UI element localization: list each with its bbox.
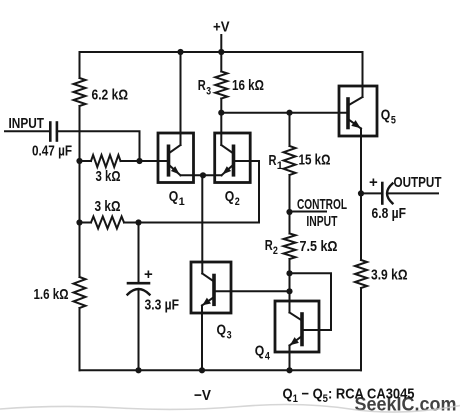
wire Q2 collector to R3 node (220, 113, 222, 145)
capacitor 6.8 µF (381, 183, 384, 204)
svg-text:7.5 kΩ: 7.5 kΩ (300, 238, 338, 255)
svg-text:16 kΩ: 16 kΩ (232, 77, 264, 94)
node +V / R3 top (218, 49, 224, 55)
svg-text:3: 3 (206, 85, 211, 97)
svg-text:−V: −V (194, 387, 211, 404)
svg-text:3.9 kΩ: 3.9 kΩ (371, 267, 408, 284)
transistor Q1 (158, 133, 194, 183)
transistor Q3 (191, 262, 231, 313)
wire R3 node to Q5 base (221, 112, 348, 114)
wire common emitters down to Q3 collector (201, 175, 203, 273)
wire output lead (388, 192, 438, 194)
svg-text:Q: Q (255, 343, 265, 360)
node Q3 base / Q4 collector (286, 288, 292, 294)
wire top +V rail (80, 51, 363, 53)
node control input (286, 209, 292, 215)
node input / 3k upper / Q1 base (136, 158, 142, 164)
wire Q1 emitter to common node (181, 174, 204, 176)
resistor R2 7.5 kΩ (284, 234, 296, 260)
node left rail / 3k upper (76, 158, 82, 164)
svg-text:3: 3 (227, 330, 232, 342)
resistor R3 16 kΩ (215, 72, 227, 99)
svg-text:Q: Q (169, 188, 179, 205)
wire left rail (6.2k branch) (79, 52, 81, 78)
wire Q1 collector to top rail (180, 52, 182, 145)
transistor Q2 (215, 133, 251, 183)
svg-text:6.8 µF: 6.8 µF (372, 205, 407, 222)
node 3.3µF / 3k lower (135, 219, 141, 225)
svg-text:Q: Q (225, 188, 235, 205)
node Q1 collector / top rail (177, 49, 183, 55)
capacitor 3.3 µF (138, 223, 140, 284)
svg-text:15 kΩ: 15 kΩ (299, 152, 331, 169)
svg-text:2: 2 (273, 245, 278, 257)
resistor 3 kΩ (upper) (91, 155, 121, 167)
resistor 1.6 kΩ (74, 277, 86, 308)
wire control input stub (290, 211, 327, 213)
node R3 bottom / Q2 collector (218, 110, 224, 116)
svg-text:R: R (265, 237, 273, 254)
svg-text:1.6 kΩ: 1.6 kΩ (34, 286, 69, 303)
svg-text:+: + (144, 266, 153, 283)
wire Q3 emitter to -V rail (201, 306, 203, 371)
power +V stub (220, 35, 222, 52)
transistor Q4 (275, 301, 319, 352)
svg-text:Q: Q (381, 107, 391, 124)
svg-text:OUTPUT: OUTPUT (394, 174, 442, 191)
svg-text:CONTROL: CONTROL (297, 196, 347, 213)
wire 3k #2 left segment (80, 222, 92, 224)
node R1 top (286, 110, 292, 116)
wire output node to capacitor (361, 192, 382, 194)
node common emitters (200, 172, 206, 178)
svg-text:+V: +V (213, 19, 230, 36)
wire 3k #1 left segment (80, 160, 92, 162)
svg-text:+: + (369, 174, 378, 191)
wire Q2 emitter to common node (203, 174, 222, 176)
svg-text:3.3 µF: 3.3 µF (145, 297, 180, 314)
node left rail / 3k lower (76, 219, 82, 225)
svg-text:R: R (198, 77, 206, 94)
resistor 3 kΩ (lower) (91, 217, 124, 229)
wire input to Q1 base node (57, 131, 140, 161)
svg-text:INPUT: INPUT (9, 115, 45, 132)
wire top rail to Q5 collector (362, 52, 364, 97)
svg-text:0.47 µF: 0.47 µF (32, 143, 72, 160)
svg-text:1: 1 (179, 196, 185, 208)
resistor R1 15 kΩ (284, 146, 296, 175)
svg-text:6.2 kΩ: 6.2 kΩ (92, 87, 129, 104)
wire input lead (5, 130, 50, 132)
wire Q5 emitter to output node (360, 129, 362, 194)
svg-text:R: R (269, 152, 277, 169)
svg-text:1: 1 (277, 160, 283, 172)
node Q3 emitter / -V rail (199, 367, 205, 373)
svg-text:5: 5 (391, 115, 396, 127)
wire Q4 collector-base feedback loop (290, 273, 332, 330)
svg-text:4: 4 (265, 351, 271, 363)
capacitor 0.47 µF (49, 123, 52, 141)
node 3.3µF / -V rail (135, 367, 141, 373)
wire R2 bottom to Q4 collector (289, 273, 291, 312)
wire 3k #1 to Q1 base (121, 160, 159, 162)
wire bottom -V rail (80, 369, 362, 371)
svg-text:3 kΩ: 3 kΩ (96, 168, 121, 185)
svg-text:3 kΩ: 3 kΩ (95, 198, 121, 215)
svg-text:INPUT: INPUT (306, 213, 337, 230)
wire Q4 emitter to -V rail (289, 346, 291, 371)
wire 3k #2 to Q2 base drop (124, 161, 259, 223)
resistor 3.9 kΩ (355, 260, 367, 288)
node output (358, 190, 364, 196)
faint scan smudge along bottom edge (0, 405, 460, 413)
svg-text:Q: Q (217, 322, 227, 339)
node R2 bottom / feedback (286, 270, 292, 276)
resistor 6.2 kΩ (74, 78, 86, 106)
transistor Q5 (339, 86, 377, 136)
wire Q3 base to Q4 node (231, 290, 290, 292)
node Q4 emitter / -V rail (286, 367, 292, 373)
svg-text:2: 2 (235, 196, 240, 208)
